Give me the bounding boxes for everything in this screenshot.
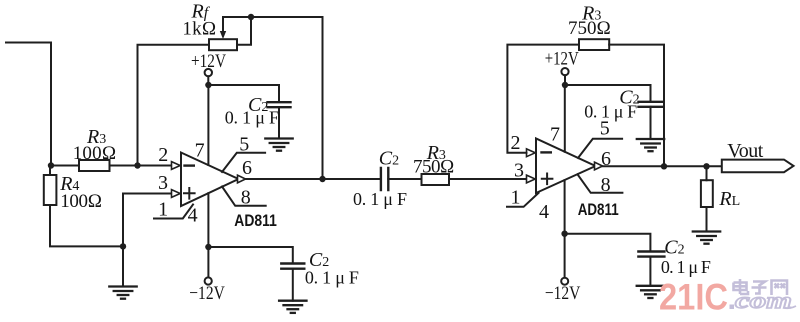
svg-text:8: 8 <box>601 174 611 196</box>
wire C2 to ground <box>278 107 280 138</box>
wire terminal to node D <box>207 76 209 85</box>
pin 7 wire stage2 <box>564 85 566 152</box>
pin 8 stub <box>222 187 266 206</box>
svg-text:100Ω: 100Ω <box>73 143 117 164</box>
wire Rf left lead to node B <box>138 45 210 166</box>
-12V terminal stage1 <box>205 277 212 284</box>
pin 2 arrowhead stage2 <box>527 149 536 157</box>
pin 7 wire <box>207 85 209 165</box>
node I feedback output junction <box>661 163 667 169</box>
op-amp U1 plus symbol <box>184 188 195 199</box>
svg-text:5: 5 <box>600 118 610 140</box>
svg-text:750Ω: 750Ω <box>413 157 455 178</box>
wire node C to pin 3 <box>123 194 172 247</box>
capacitor C2 stage1 +12V decoupling <box>268 102 291 107</box>
wire feedback right stage2 <box>609 45 664 167</box>
pin 6 output arrowhead <box>238 175 246 183</box>
node A junction R3/R4 <box>48 162 54 168</box>
wire C2 to ground <box>292 269 294 301</box>
resistor R3 100ohm stage1 <box>79 160 110 171</box>
op-amp U1 minus symbol <box>185 164 194 166</box>
svg-text:−12V: −12V <box>189 283 225 304</box>
ground (input divider) <box>109 287 136 299</box>
watermark dian character <box>734 279 749 294</box>
potentiometer Rf 1k body <box>209 39 237 50</box>
svg-text:6: 6 <box>601 148 611 170</box>
svg-text:21IC: 21IC <box>659 277 728 318</box>
op-amp U2 plus symbol <box>542 174 553 185</box>
ground (stage2 +12V decoupling) <box>637 139 664 151</box>
pin 4 wire stage2 <box>564 180 566 234</box>
node K -12V rail stage2 <box>561 231 567 237</box>
pin 1 stub stage2 <box>507 193 539 207</box>
svg-text:2: 2 <box>158 144 168 166</box>
node F feedback top junction <box>248 14 254 20</box>
node E output feedback junction <box>319 176 325 182</box>
wire -12V rail to C2 decoupling stage2 <box>565 234 651 251</box>
svg-text:Vout: Vout <box>727 140 763 162</box>
svg-text:750Ω: 750Ω <box>568 18 611 39</box>
node D +12V rail stage1 <box>205 82 211 88</box>
wire R3 to pin 2 <box>110 165 172 167</box>
capacitor C2 stage2 -12V decoupling <box>638 252 664 257</box>
wire coupling C2 to R3 <box>388 178 421 180</box>
svg-text:0. 1 μ F: 0. 1 μ F <box>584 102 637 122</box>
node J load junction <box>703 163 709 169</box>
pin 3 arrowhead stage2 <box>527 175 536 183</box>
svg-text:1: 1 <box>158 198 168 220</box>
capacitor C2 coupling <box>381 168 388 190</box>
wire node K to -12V terminal <box>564 234 566 278</box>
svg-text:100Ω: 100Ω <box>60 191 102 212</box>
svg-text:0. 1 μ F: 0. 1 μ F <box>305 268 359 288</box>
svg-text:0. 1 μ F: 0. 1 μ F <box>661 257 711 277</box>
svg-text:AD811: AD811 <box>234 211 276 230</box>
capacitor C2 stage2 +12V decoupling <box>639 102 663 107</box>
wire output stage1 <box>246 178 381 180</box>
wire -12V rail to C2 decoupling <box>208 247 292 262</box>
wire node C to ground <box>122 246 124 286</box>
wire node G to -12V terminal <box>207 247 209 277</box>
pin 3 arrowhead <box>172 190 181 198</box>
pin 5 stub stage2 <box>578 139 622 158</box>
potentiometer Rf wiper arrow <box>222 17 224 32</box>
op-amp U1 AD811 triangle <box>181 153 239 207</box>
svg-text:3: 3 <box>158 172 168 194</box>
pin 6 output arrowhead stage2 <box>595 162 603 170</box>
wire terminal to node H <box>564 75 566 85</box>
-12V terminal stage2 <box>561 278 568 285</box>
watermark wang character <box>772 281 788 296</box>
resistor RL load <box>701 180 713 207</box>
wire +12V rail to C2 decoupling stage2 <box>565 85 651 101</box>
wire +12V rail to C2 decoupling <box>208 85 279 101</box>
svg-text:−12V: −12V <box>545 283 581 304</box>
capacitor C2 stage1 -12V decoupling <box>281 264 304 269</box>
wire input (top left) <box>6 43 51 166</box>
pin 4 wire stage1 <box>207 193 209 247</box>
svg-text:2: 2 <box>511 132 521 154</box>
svg-text:AD811: AD811 <box>578 200 619 219</box>
svg-text:0. 1 μ F: 0. 1 μ F <box>353 189 407 209</box>
pin 2 arrowhead <box>172 162 181 170</box>
svg-text:+12V: +12V <box>191 51 226 72</box>
ground (stage2 -12V decoupling) <box>637 286 664 298</box>
wire RL leads <box>706 166 708 231</box>
node C divider bottom junction <box>120 243 126 249</box>
resistor R3 750ohm feedback stage2 <box>579 39 609 50</box>
wire output stage2 <box>603 165 722 167</box>
pin 5 stub <box>222 153 265 172</box>
wire feedback to pin 2 stage2 <box>507 45 579 153</box>
wire Rf right lead <box>237 17 251 45</box>
output tag Vout <box>722 160 794 173</box>
op-amp U2 AD811 triangle <box>536 139 596 194</box>
op-amp U2 minus symbol <box>542 151 551 153</box>
ground (stage1 -12V decoupling) <box>279 301 306 313</box>
pin 8 stub stage2 <box>578 174 623 193</box>
resistor R4 100ohm <box>44 175 57 205</box>
svg-text:5: 5 <box>239 134 249 156</box>
watermark zi character <box>752 282 767 294</box>
svg-text:1kΩ: 1kΩ <box>182 19 216 40</box>
wire feedback loop stage1 <box>223 17 323 179</box>
ground (stage1 +12V decoupling) <box>265 139 292 151</box>
svg-text:0. 1 μ F: 0. 1 μ F <box>225 107 279 127</box>
node G -12V rail stage1 <box>205 244 211 250</box>
wire node A to R3 <box>51 165 79 167</box>
svg-text:com: com <box>735 288 792 313</box>
svg-text:4: 4 <box>188 205 198 227</box>
svg-text:6: 6 <box>242 157 252 179</box>
svg-text:3: 3 <box>514 159 524 181</box>
svg-text:7: 7 <box>550 124 560 146</box>
svg-text:4: 4 <box>539 201 549 223</box>
+12V terminal stage2 <box>561 68 568 75</box>
svg-text:8: 8 <box>241 187 251 209</box>
wire C2 to ground stage2 <box>650 107 652 139</box>
wire R4 leads <box>50 166 123 247</box>
watermark dot com <box>730 305 735 310</box>
svg-text:1: 1 <box>511 187 521 209</box>
node B inverting input junction <box>134 162 140 168</box>
ground (load) <box>693 232 720 244</box>
pin 1 stub <box>154 205 193 219</box>
svg-text:+12V: +12V <box>545 48 579 69</box>
+12V terminal stage1 <box>205 69 212 76</box>
svg-text:7: 7 <box>195 139 205 161</box>
wire C2 to ground stage2 bottom <box>649 257 651 286</box>
node H +12V rail stage2 <box>562 82 568 88</box>
resistor R3 750ohm coupling <box>422 174 450 185</box>
wire R3 to pin 3 stage2 <box>449 178 527 180</box>
